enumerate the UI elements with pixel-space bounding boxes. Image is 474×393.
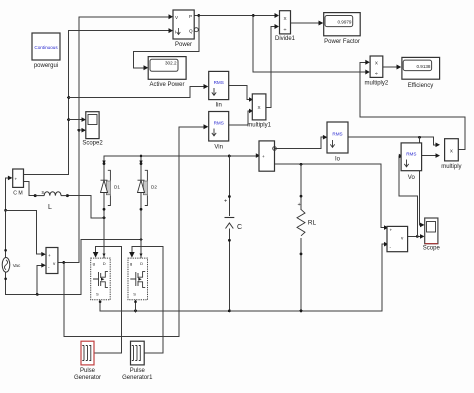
svg-text:0.9979: 0.9979 <box>337 20 351 25</box>
node rail RL junction <box>300 163 303 166</box>
svg-text:D2: D2 <box>151 185 157 190</box>
block multiply <box>441 139 461 170</box>
arrow mosfet2 gate <box>129 252 135 258</box>
svg-text:Divide1: Divide1 <box>275 36 296 42</box>
wire Vac bottom return <box>6 240 141 295</box>
svg-text:X: X <box>283 16 286 21</box>
wire Io measurement signal to RMS Io <box>275 137 324 148</box>
inductor L <box>34 190 69 211</box>
svg-text:S: S <box>133 292 136 297</box>
wire capacitor C branch <box>228 156 230 311</box>
mosfet Q1 <box>91 258 111 303</box>
wire tap to Vin measurement plus <box>6 210 43 254</box>
node minus rail mosfet2 junction <box>134 310 137 313</box>
wire D2 leg vertical <box>140 156 142 258</box>
block voltage measurement Vin <box>46 248 58 274</box>
svg-text:Efficiency: Efficiency <box>408 83 434 89</box>
svg-text:+: + <box>262 154 265 159</box>
svg-text:Power Factor: Power Factor <box>324 39 360 45</box>
svg-text:P: P <box>189 14 192 19</box>
wire Vac top to C M input <box>6 178 9 258</box>
node rail D2 junction <box>140 155 143 158</box>
svg-text:Iin: Iin <box>216 103 222 109</box>
unconnected Q port circle <box>194 28 198 32</box>
svg-text:+: + <box>15 177 18 182</box>
node I-signal RMS tap <box>67 96 70 99</box>
svg-text:Continuous: Continuous <box>34 45 58 50</box>
svg-text:X: X <box>450 149 453 154</box>
svg-text:g: g <box>93 261 95 266</box>
arrow into multiply input1 <box>436 143 441 148</box>
wire RMS Iin output to multiply1 input 1 <box>229 86 250 100</box>
arrow into Vo measurement plus <box>384 225 389 230</box>
node return wire Vin minus tap <box>36 293 39 296</box>
arrow into D2 top <box>139 161 142 165</box>
svg-text:powergui: powergui <box>34 63 58 69</box>
block multiply2 <box>365 56 389 87</box>
wire V signal to Scope2 input 2 <box>79 129 83 131</box>
wire Pulse Generator1 to mosfet2 gate <box>132 247 163 353</box>
svg-text:Pulse: Pulse <box>80 368 96 374</box>
resistor RL <box>297 195 317 256</box>
arrow into Io current measurement <box>256 153 261 158</box>
svg-text:S: S <box>96 292 99 297</box>
diode D2 <box>138 162 158 211</box>
node minus rail RL junction <box>300 310 303 313</box>
svg-text:Scope: Scope <box>423 246 441 252</box>
wire Vo measurement output to Scope input 2 <box>408 235 422 237</box>
svg-text:D: D <box>140 261 143 266</box>
block RMS Io <box>327 122 348 163</box>
wire RL branch top <box>300 164 302 209</box>
arrow into Vo measurement minus <box>384 242 389 247</box>
diode D1 <box>101 162 121 211</box>
arrow into C M <box>8 176 13 181</box>
arrow into Divide1 input 2 <box>275 24 280 29</box>
node I-signal Scope2 tap <box>67 118 70 121</box>
svg-text:C M: C M <box>13 191 23 197</box>
block C M current measurement <box>13 169 24 197</box>
node rail capacitor junction <box>228 155 231 158</box>
wire rail after current measurement to RL and Vo plus <box>275 164 386 227</box>
svg-text:multiply1: multiply1 <box>247 123 271 129</box>
wire mosfet1 source to minus rail <box>99 300 101 311</box>
svg-text:Io: Io <box>335 157 341 163</box>
node P junction for Active Power branch <box>197 14 200 17</box>
svg-text:Generator1: Generator1 <box>122 375 153 381</box>
svg-text:Generator: Generator <box>74 375 101 381</box>
wire RMS Vin output to multiply1 input 2 <box>229 111 250 125</box>
node Vin plus tap <box>4 209 7 212</box>
svg-text:L: L <box>48 204 52 211</box>
arrow into Scope2 input2 <box>82 128 87 133</box>
block voltage measurement Vo <box>387 226 408 251</box>
wire mosfet2 source to minus rail <box>135 300 137 311</box>
source Vac <box>2 249 21 280</box>
arrow into Power I <box>169 28 174 33</box>
node return to D2 leg junction <box>140 238 143 241</box>
wire Vo signal to RMS Vo input <box>399 156 417 236</box>
svg-text:X: X <box>258 105 261 110</box>
wire I signal to Scope2 input 1 <box>69 119 83 121</box>
svg-text:Scope2: Scope2 <box>82 141 103 147</box>
node Io Scope tap <box>418 136 421 139</box>
display Power Factor <box>324 13 361 45</box>
arrow into RMS Vo <box>399 154 404 159</box>
svg-text:+: + <box>48 253 51 258</box>
wire DC plus rail <box>104 155 257 157</box>
node V-signal Scope2 tap <box>77 129 80 132</box>
svg-text:302.2: 302.2 <box>165 61 177 66</box>
arrow into Vin measurement plus <box>41 252 46 257</box>
svg-text:RMS: RMS <box>214 121 224 126</box>
wire tap to Vin measurement minus <box>37 265 42 294</box>
svg-text:÷: ÷ <box>375 71 378 77</box>
svg-text:D: D <box>103 261 106 266</box>
block Scope2 <box>82 112 103 147</box>
arrow into RMS Vin <box>204 124 209 129</box>
arrow into multiply2 X <box>365 60 370 65</box>
wire DC minus rail <box>100 244 385 311</box>
svg-text:Pulse: Pulse <box>130 368 146 374</box>
svg-text:0.9138: 0.9138 <box>416 64 430 69</box>
arrow mosfet2 drain entry <box>140 254 143 257</box>
block RMS Iin <box>209 71 229 108</box>
svg-text:g: g <box>130 261 132 266</box>
arrow into D1 top <box>102 161 105 165</box>
block current measurement Io <box>259 141 276 171</box>
powergui block <box>32 33 60 69</box>
svg-text:D1: D1 <box>114 185 120 190</box>
wire C M physical out to inductor L <box>24 182 35 196</box>
wire P output Power to Divide1 <box>194 15 274 17</box>
wire P branch to multiply2 divide input <box>253 16 366 73</box>
mosfet Q2 <box>128 258 148 303</box>
svg-text:÷: ÷ <box>284 27 287 33</box>
arrow into RMS Io <box>323 135 328 140</box>
svg-text:Active Power: Active Power <box>149 82 184 88</box>
arrow into multiply2 divide <box>365 70 370 75</box>
node minus rail capacitor junction <box>228 310 231 313</box>
wire multiply1 output to Divide1 divide input <box>266 27 275 108</box>
display Efficiency <box>402 57 440 89</box>
block Pulse Generator <box>74 341 101 381</box>
block Power measurement U-Power <box>173 10 198 48</box>
wire RMS Io output to multiply input 1 <box>348 137 436 145</box>
block RMS Vo <box>401 143 422 181</box>
arrowheads <box>8 13 440 268</box>
display Active Power <box>148 57 186 88</box>
arrow into Scope2 input1 <box>82 117 87 122</box>
arrow into RMS Iin <box>204 84 209 89</box>
node L to D1 junction <box>103 216 106 219</box>
arrow mosfet1 gate <box>93 252 99 258</box>
svg-text:Vac: Vac <box>13 263 21 268</box>
arrow into Vin measurement minus <box>41 263 46 268</box>
svg-text:Vo: Vo <box>408 175 416 181</box>
block Divide1 <box>275 11 296 42</box>
svg-text:+: + <box>390 228 393 233</box>
wire I signal from C M to Power I input <box>24 31 171 175</box>
wire multiply2 output to Efficiency display <box>383 66 398 68</box>
wire P branch to Active Power display <box>133 16 199 68</box>
svg-text:multiply2: multiply2 <box>365 81 389 87</box>
svg-text:Power: Power <box>175 42 192 48</box>
svg-text:RMS: RMS <box>406 152 416 157</box>
wire Pulse Generator to mosfet1 gate <box>94 246 121 353</box>
svg-text:+: + <box>298 202 301 208</box>
svg-text:Vin: Vin <box>214 145 223 151</box>
wire D1 leg vertical <box>103 156 105 258</box>
arrow into Scope input2 <box>420 234 425 239</box>
arrow mosfet1 drain entry <box>103 254 106 257</box>
arrow into multiply input2 <box>436 153 441 158</box>
wire RMS Vo output to multiply input 2 <box>422 155 437 157</box>
node P junction for efficiency branch <box>252 14 255 17</box>
wire RL branch bottom <box>300 239 302 311</box>
wire Divide1 output to Power Factor display <box>291 22 321 24</box>
wire inductor L to D1 leg <box>68 196 104 218</box>
arrow into multiply1 input2 <box>249 109 253 114</box>
svg-text:multiply: multiply <box>441 164 461 170</box>
arrow into Power Factor <box>319 21 324 26</box>
svg-text:I: I <box>175 30 176 35</box>
node Vo signal tap <box>416 235 419 238</box>
svg-text:RL: RL <box>308 220 317 227</box>
svg-text:RMS: RMS <box>332 132 342 137</box>
wire Io signal to Scope input 1 <box>420 137 422 225</box>
arrow into multiply1 input1 <box>249 97 253 102</box>
arrow into Scope input1 <box>420 223 425 228</box>
svg-text:RMS: RMS <box>214 80 224 85</box>
wire V signal branch to RMS Vin <box>64 127 204 336</box>
svg-text:+: + <box>224 199 227 205</box>
arrow into Efficiency <box>397 65 402 70</box>
arrow into Active Power <box>144 65 149 70</box>
node V-signal junction <box>63 261 66 264</box>
arrow into Power V <box>169 14 174 19</box>
capacitor C <box>224 195 242 242</box>
svg-text:Q: Q <box>189 29 193 34</box>
block RMS Vin <box>209 112 229 151</box>
block multiply1 <box>247 94 271 129</box>
wire I signal branch to RMS Iin <box>69 87 205 98</box>
svg-text:X: X <box>375 61 378 66</box>
arrow into Divide1 input 1 <box>275 13 280 18</box>
block Scope <box>423 218 441 252</box>
wire multiply output feedback to multiply2 X input <box>360 62 465 149</box>
svg-text:C: C <box>237 224 242 231</box>
wire V signal from Vin measurement to Power V input <box>58 17 170 263</box>
block Pulse Generator1 <box>122 341 153 381</box>
